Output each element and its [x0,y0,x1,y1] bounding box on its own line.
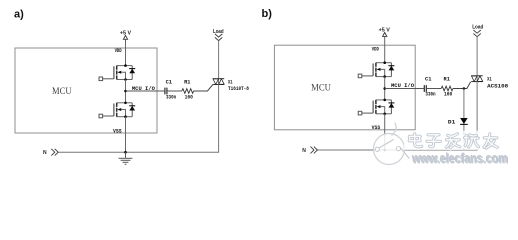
wire between FETs b [384,77,386,100]
node VSS/N junction b [383,149,386,152]
svg-text:330n: 330n [425,92,435,98]
wire +5V rail a [125,39,127,65]
wire D1 branch to N rail b [463,89,465,151]
svg-text:D1: D1 [448,120,455,126]
svg-text:N: N [302,148,306,154]
wire between FETs a [125,80,127,103]
transistor Q2 (N-channel, circuit b) MOSFET symbol [358,99,394,116]
resistor R1 b [441,86,453,91]
wire MCU I/O to C1 b [385,88,424,90]
svg-text:MCU: MCU [52,86,72,97]
node VSS/N junction a [124,151,127,154]
svg-text:X1: X1 [228,80,233,86]
wire R1 to triac gate b [453,82,471,89]
svg-text:www.elecfans.com: www.elecfans.com [411,151,508,166]
wire VSS to N rail b [384,114,386,150]
svg-text:330n: 330n [166,95,176,101]
wire C1 to R1 a [167,90,182,92]
svg-text:C1: C1 [425,77,431,83]
svg-text:VSS: VSS [113,128,122,134]
transistor Q1 (P-channel, circuit a) MOSFET symbol [99,64,135,81]
wire R1 to triac gate a [194,85,213,91]
diode D1 b [460,118,468,124]
svg-text:Load: Load [472,24,483,30]
MCU box a [15,48,157,133]
node D1 branch b [463,87,466,90]
svg-text:X1: X1 [487,77,492,83]
triac X1 T1610T-8 symbol [213,79,225,85]
MCU box b [274,45,415,130]
svg-text:VSS: VSS [372,125,381,131]
node MCU I/O a [124,90,127,93]
wire MCU I/O to C1 a [126,90,165,92]
wire triac to N rail b [317,82,477,150]
wire +5V rail b [384,36,386,62]
capacitor C1 a [165,88,167,95]
svg-text:MCU: MCU [311,82,331,93]
svg-text:a): a) [14,8,24,20]
svg-text:C1: C1 [166,80,172,86]
transistor Q1 (P-channel, circuit b) MOSFET symbol [358,61,394,78]
capacitor C1 b [424,85,426,92]
wire load to triac b [476,37,478,76]
triac X1 ACS108 symbol [471,76,483,82]
ground symbol a [119,152,133,164]
svg-text:ACS108: ACS108 [487,84,508,90]
svg-text:VDD: VDD [115,48,122,54]
svg-text:R1: R1 [444,77,450,83]
wire triac to N rail a [58,85,218,153]
svg-text:N: N [43,150,47,156]
watermark logo circle [374,123,410,165]
node MCU I/O b [383,87,386,90]
svg-text:R1: R1 [184,80,190,86]
svg-text:160: 160 [185,95,193,101]
svg-text:160: 160 [444,92,452,98]
svg-text:T1610T-8: T1610T-8 [228,86,249,92]
wire VSS to N rail a [125,117,127,153]
watermark characters [404,131,501,151]
transistor Q2 (N-channel, circuit a) MOSFET symbol [99,102,135,119]
resistor R1 a [182,89,194,94]
svg-text:VDD: VDD [372,46,379,52]
wire load to triac a [218,41,220,79]
svg-text:b): b) [262,8,273,20]
wire C1 to R1 b [427,88,441,90]
